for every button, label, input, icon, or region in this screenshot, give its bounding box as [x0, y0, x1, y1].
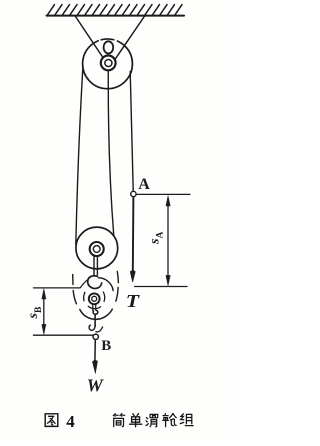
dimension arrowhead sA top	[166, 196, 170, 206]
force arrow T head	[130, 270, 135, 282]
dashed housing right side	[116, 272, 119, 302]
fixed pulley wheel hidden top arc (dashed)	[91, 39, 124, 46]
datum line at T	[135, 286, 187, 288]
caption char 单	[130, 414, 142, 427]
upper hook	[88, 276, 102, 289]
rope free end below A	[132, 197, 135, 271]
caption char 组	[180, 414, 193, 426]
support bar left	[76, 17, 103, 58]
movable pulley wheel	[76, 227, 118, 269]
housing shoulder left	[80, 279, 88, 287]
dashed housing left side	[73, 275, 77, 304]
support bar right	[116, 17, 145, 59]
dimension line sB	[43, 292, 45, 331]
dimension line sA	[167, 200, 169, 281]
svg-text:4: 4	[66, 412, 75, 431]
dimension arrowhead sB top	[42, 289, 46, 299]
lower axle outer ring	[89, 293, 100, 304]
housing bottom arc	[80, 309, 113, 319]
dashed hub ring left arc	[84, 292, 85, 301]
datum line sB bottom	[34, 334, 94, 336]
fixed pulley axle outer ring	[101, 56, 116, 71]
weight arrow W head	[92, 360, 97, 374]
datum line at A	[137, 193, 190, 195]
datum line sB top	[34, 287, 81, 289]
lower shackle link left edge	[92, 304, 94, 310]
dashed hub ring right arc	[103, 292, 104, 301]
axle label O	[104, 41, 114, 53]
rope right strand above A	[130, 72, 133, 195]
weight arrow W shaft	[94, 340, 96, 361]
label sB (rotated)	[26, 306, 44, 319]
dimension arrowhead sB bottom	[42, 324, 46, 334]
caption char 图	[45, 414, 58, 427]
movable pulley axle pin	[93, 246, 100, 253]
rope middle strand (anchored end)	[108, 71, 114, 236]
lower shackle link right edge	[95, 304, 97, 310]
shackle link right edge	[96, 256, 98, 275]
caption char 滑	[146, 414, 158, 426]
svg-text:B: B	[101, 338, 111, 354]
lower axle pin	[92, 296, 97, 301]
label sA (rotated)	[148, 232, 166, 245]
lower shackle knot	[93, 310, 98, 314]
caption char 简	[113, 414, 124, 427]
caption: 图 4 简单滑轮组 (hand-drawn CJK strokes)	[45, 412, 193, 431]
svg-text:T: T	[126, 291, 140, 311]
shackle link left edge	[93, 256, 95, 276]
svg-text:W: W	[87, 375, 105, 395]
lower hook left curl	[89, 325, 95, 330]
caption char 轮	[163, 414, 176, 427]
ceiling line	[47, 15, 185, 17]
lower hook shank	[94, 314, 96, 326]
node B	[93, 334, 98, 339]
housing shoulder right	[99, 278, 114, 291]
svg-text:A: A	[138, 176, 150, 193]
movable pulley axle outer ring	[90, 242, 104, 256]
ceiling hatching	[48, 5, 183, 15]
lower hook right fluke	[96, 327, 103, 332]
dimension arrowhead sA bottom	[166, 275, 170, 285]
node A	[131, 191, 136, 196]
dashed hub ring bottom arc	[88, 306, 100, 308]
fixed pulley axle pin	[105, 59, 112, 66]
fixed pulley wheel (solid lower arc)	[83, 45, 133, 89]
rope left strand	[76, 67, 83, 245]
